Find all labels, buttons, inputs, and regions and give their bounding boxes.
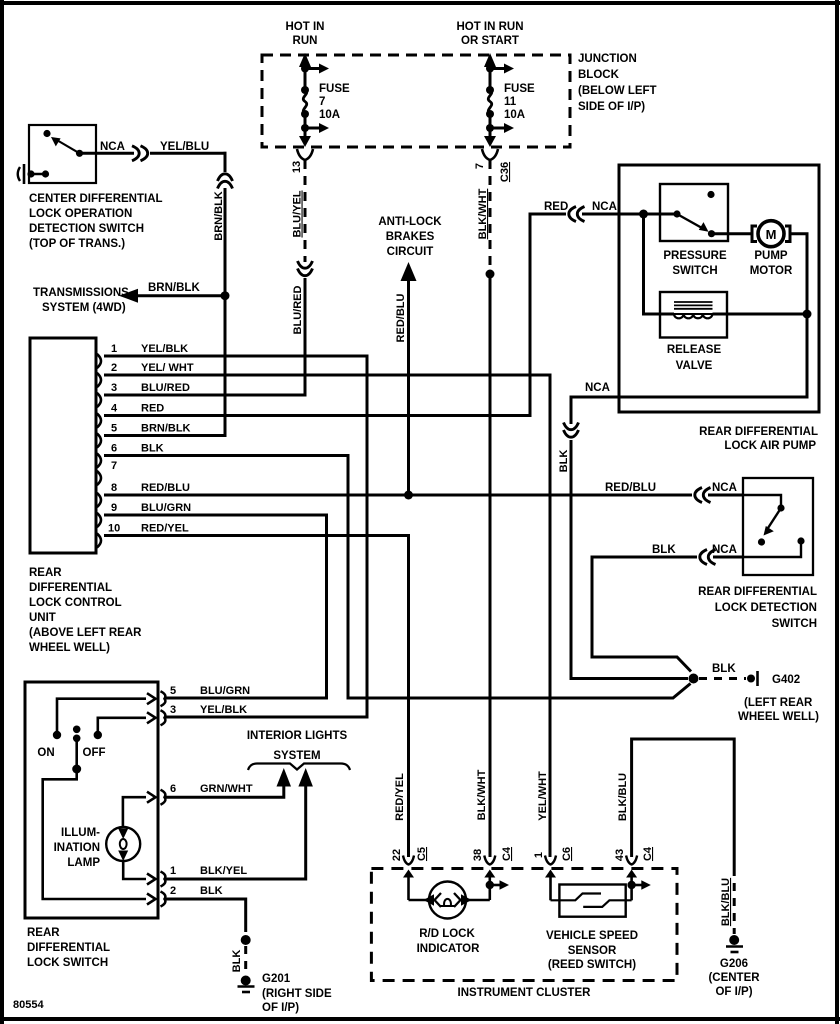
svg-text:RED/BLU: RED/BLU <box>605 482 656 494</box>
ground G201 symbol <box>241 976 251 986</box>
junction dot to transmissions system <box>221 291 230 300</box>
wire pressure switch to pump motor <box>712 232 752 235</box>
svg-text:SYSTEM (4WD): SYSTEM (4WD) <box>42 302 126 314</box>
pressure switch box <box>660 184 728 241</box>
svg-text:RED: RED <box>141 403 164 415</box>
svg-text:DIFFERENTIAL: DIFFERENTIAL <box>27 942 110 954</box>
svg-text:WHEEL WELL): WHEEL WELL) <box>29 642 110 654</box>
wire GRN/WHT to interior lights <box>166 786 284 797</box>
wire BLK dashed to G402 <box>699 677 746 680</box>
svg-text:OF I/P): OF I/P) <box>715 986 752 998</box>
svg-text:UNIT: UNIT <box>29 612 56 624</box>
svg-text:PRESSURE: PRESSURE <box>663 250 727 262</box>
wire NCA into air pump <box>582 213 677 216</box>
cluster pin 38 fork <box>484 856 495 865</box>
svg-text:(RIGHT SIDE: (RIGHT SIDE <box>262 988 332 1000</box>
wire release valve to return <box>660 313 727 315</box>
svg-text:10: 10 <box>108 523 120 535</box>
wire BLK pump return down <box>570 396 573 425</box>
svg-text:38: 38 <box>472 849 484 861</box>
svg-text:C5: C5 <box>416 847 428 861</box>
svg-text:LOCK SWITCH: LOCK SWITCH <box>27 957 108 969</box>
svg-text:ANTI-LOCK: ANTI-LOCK <box>378 216 442 228</box>
pin 6 connector <box>97 454 101 468</box>
rear differential lock control unit box <box>30 338 96 553</box>
svg-text:OFF: OFF <box>83 747 106 759</box>
svg-text:NCA: NCA <box>100 141 125 153</box>
svg-text:2: 2 <box>170 885 176 897</box>
svg-text:YEL/WHT: YEL/WHT <box>537 771 549 821</box>
wire to R/D lock indicator <box>409 899 430 902</box>
release valve caption <box>667 344 722 372</box>
svg-text:INTERIOR LIGHTS: INTERIOR LIGHTS <box>247 730 348 742</box>
wire BRN/BLK branch to transmissions system <box>136 294 225 297</box>
svg-text:VEHICLE SPEED: VEHICLE SPEED <box>546 930 638 942</box>
rear differential lock air pump outer box <box>619 165 819 412</box>
wire to release valve <box>644 214 675 314</box>
fuse 7 top tap dot and arrow <box>301 65 309 73</box>
svg-text:PUMP: PUMP <box>754 250 788 262</box>
rear differential lock detection switch box <box>743 478 813 575</box>
svg-text:7: 7 <box>319 96 325 108</box>
svg-text:RED/YEL: RED/YEL <box>394 773 406 821</box>
svg-text:5: 5 <box>111 423 117 435</box>
svg-text:(ABOVE LEFT REAR: (ABOVE LEFT REAR <box>29 627 142 639</box>
branch arrow from pin 43 junction <box>632 884 643 887</box>
wire NCA into detection switch <box>708 494 743 497</box>
svg-text:JUNCTION: JUNCTION <box>578 53 637 65</box>
pin 3 connector <box>97 393 101 407</box>
svg-text:ILLUM-: ILLUM- <box>61 827 100 839</box>
svg-text:(TOP OF TRANS.): (TOP OF TRANS.) <box>29 238 125 250</box>
wire reed to pin 43 <box>630 876 633 900</box>
inline connector on BLU/YEL wire <box>298 261 313 268</box>
svg-text:BLK/YEL: BLK/YEL <box>200 865 247 877</box>
pressure switch input contact <box>673 210 680 217</box>
detection switch blade with arrow <box>768 508 781 528</box>
lock switch caption <box>27 927 110 969</box>
svg-text:NCA: NCA <box>712 482 737 494</box>
svg-text:WHEEL WELL): WHEEL WELL) <box>738 711 819 723</box>
inline connector on BLK detection wire <box>700 550 707 565</box>
svg-text:10A: 10A <box>319 109 340 121</box>
svg-text:INDICATOR: INDICATOR <box>417 943 481 955</box>
svg-text:3: 3 <box>111 382 117 394</box>
ground G402 symbol <box>747 675 755 683</box>
pump motor left bracket <box>752 226 757 242</box>
svg-text:LAMP: LAMP <box>67 857 100 869</box>
svg-text:C6: C6 <box>561 847 573 861</box>
junction dot NCA feed inside pump <box>639 210 648 219</box>
inline connector on RED/BLU wire <box>695 488 702 503</box>
wire BRN/BLK vertical from corner <box>224 152 227 172</box>
cluster pin 22 arrow <box>403 870 414 878</box>
pump motor M circle <box>758 221 784 247</box>
cluster pin 38 arrow <box>484 870 495 878</box>
node HOT IN RUN OR START label <box>456 21 523 47</box>
switch fixed contact upper-left <box>43 130 50 137</box>
svg-text:9: 9 <box>111 502 117 514</box>
svg-text:REAR DIFFERENTIAL: REAR DIFFERENTIAL <box>698 586 817 598</box>
svg-text:OR START: OR START <box>461 35 519 47</box>
switch lower contacts <box>27 170 34 177</box>
svg-text:GRN/WHT: GRN/WHT <box>200 783 253 795</box>
svg-text:BLU/YEL: BLU/YEL <box>292 190 304 237</box>
wire BLK dashed to G201 <box>244 946 247 976</box>
svg-text:G201: G201 <box>262 973 291 985</box>
junction dot on BLK/WHT inside cluster <box>486 881 494 889</box>
R/D lock indicator lamp <box>429 882 466 919</box>
fuse 11 top tap dot and arrow <box>486 65 494 73</box>
splice dot on BLK/WHT <box>486 270 495 279</box>
rear differential lock switch box <box>25 682 158 918</box>
inline connector on BLK return <box>564 423 579 430</box>
svg-text:SYSTEM: SYSTEM <box>273 750 320 762</box>
connector fork pin 7 below fuse 11 <box>482 149 498 160</box>
svg-text:NCA: NCA <box>712 544 737 556</box>
lock switch pin 5 internal wire <box>57 699 146 735</box>
lock switch pin 3 internal wire <box>98 718 146 735</box>
svg-text:RED/YEL: RED/YEL <box>141 523 189 535</box>
svg-text:DETECTION SWITCH: DETECTION SWITCH <box>29 223 144 235</box>
svg-text:CENTER DIFFERENTIAL: CENTER DIFFERENTIAL <box>29 193 163 205</box>
wire BLK/WHT dashed from junction block <box>489 160 492 268</box>
svg-text:SENSOR: SENSOR <box>568 945 617 957</box>
detection switch lower contact <box>743 543 801 557</box>
wire BLK/WHT solid down to instrument cluster <box>489 274 492 857</box>
pin 7 connector <box>97 471 101 485</box>
fuse 11 bottom tap dot and arrow <box>489 114 492 139</box>
svg-text:6: 6 <box>170 783 176 795</box>
switch pole pivot <box>73 726 81 734</box>
wire BLK/BLU dashed tail <box>733 868 736 934</box>
ground G201 caption <box>262 973 332 1014</box>
wire BLK from detection switch to G402 junction <box>592 557 697 672</box>
wire BLK/BLU from pin 43 to G206 <box>632 739 735 868</box>
switch common contact <box>76 150 83 157</box>
pressure switch caption <box>663 250 727 277</box>
svg-text:BRN/BLK: BRN/BLK <box>213 191 225 241</box>
junction dot RED/BLU <box>404 491 413 500</box>
svg-text:4: 4 <box>111 403 118 415</box>
junction block dashed box <box>262 55 570 147</box>
wire from switch to inline connector <box>80 152 135 155</box>
center differential switch caption <box>29 193 163 250</box>
svg-text:LOCK OPERATION: LOCK OPERATION <box>29 208 132 220</box>
lock switch pin 1 fork <box>161 872 166 887</box>
wire RED/BLU to anti-lock brakes circuit with up arrow <box>401 262 417 281</box>
fuse 11 feed arrow up <box>489 68 492 90</box>
svg-text:(CENTER: (CENTER <box>708 972 760 984</box>
svg-text:VALVE: VALVE <box>676 360 713 372</box>
svg-text:BLU/RED: BLU/RED <box>141 382 190 394</box>
fuse 7 bottom tap dot and arrow <box>304 114 307 139</box>
wire NCA into detection switch lower <box>713 556 743 559</box>
interior lights brace <box>248 764 350 771</box>
svg-text:RED/BLU: RED/BLU <box>141 482 190 494</box>
svg-text:BLK/WHT: BLK/WHT <box>477 188 489 239</box>
svg-text:(BELOW LEFT: (BELOW LEFT <box>578 85 657 97</box>
wire indicator to pin 38 <box>466 899 490 902</box>
junction block label <box>578 53 657 113</box>
svg-text:BLK/BLU: BLK/BLU <box>617 773 629 821</box>
svg-text:1: 1 <box>111 343 117 355</box>
junction dot release valve return <box>803 310 812 319</box>
svg-text:SIDE OF I/P): SIDE OF I/P) <box>578 101 645 113</box>
svg-text:ON: ON <box>37 747 54 759</box>
svg-text:SWITCH: SWITCH <box>672 265 717 277</box>
vehicle speed sensor box <box>559 885 625 917</box>
illumination lamp circle <box>106 827 140 861</box>
svg-text:10A: 10A <box>504 109 525 121</box>
svg-text:G402: G402 <box>772 674 800 686</box>
svg-text:BRAKES: BRAKES <box>386 231 435 243</box>
node HOT IN RUN label <box>286 21 325 47</box>
connector fork pin 13 below fuse 7 <box>297 149 313 160</box>
svg-text:RELEASE: RELEASE <box>667 344 722 356</box>
svg-text:HOT IN RUN: HOT IN RUN <box>456 21 523 33</box>
splice dot G201 wire <box>241 935 251 945</box>
svg-text:INSTRUMENT CLUSTER: INSTRUMENT CLUSTER <box>458 987 592 999</box>
detection switch caption <box>698 586 817 630</box>
svg-text:REAR: REAR <box>27 927 60 939</box>
svg-text:OF I/P): OF I/P) <box>262 1002 299 1014</box>
pressure switch output contact <box>708 230 715 237</box>
svg-text:RED/BLU: RED/BLU <box>395 294 407 343</box>
junction dot pin 43 <box>627 881 635 889</box>
svg-text:HOT IN: HOT IN <box>286 21 325 33</box>
svg-text:MOTOR: MOTOR <box>750 265 793 277</box>
pressure switch blade with arrow <box>677 214 702 228</box>
svg-text:7: 7 <box>111 460 117 472</box>
svg-text:BLK: BLK <box>558 450 570 473</box>
svg-text:M: M <box>766 227 777 242</box>
lock switch pin 6 fork <box>161 790 166 805</box>
control unit caption <box>29 567 142 654</box>
switch blade with arrow <box>59 141 80 153</box>
vehicle speed sensor caption <box>546 930 638 971</box>
release valve winding <box>674 314 712 318</box>
wire BRN/BLK continues down to pin 5 row <box>224 188 227 437</box>
lamp top arrow <box>118 829 128 840</box>
svg-text:BLK/BLU: BLK/BLU <box>720 878 732 926</box>
svg-text:REAR: REAR <box>29 567 62 579</box>
lock switch pin 5 fork <box>161 691 166 706</box>
wire BLK/YEL to interior lights <box>166 786 306 879</box>
ON contact dot <box>53 731 61 739</box>
svg-text:LOCK CONTROL: LOCK CONTROL <box>29 597 122 609</box>
detection switch moving contact <box>758 538 765 545</box>
lamp wire to pin 1 <box>123 861 146 879</box>
svg-text:80554: 80554 <box>13 999 44 1011</box>
lock switch pin 3 fork <box>161 710 166 725</box>
pin 10 connector <box>97 534 101 548</box>
svg-text:BLOCK: BLOCK <box>578 69 620 81</box>
pin 5 connector <box>97 434 101 448</box>
air pump caption <box>699 426 818 452</box>
release valve box <box>660 292 727 338</box>
cluster pin 1 arrow <box>545 870 556 878</box>
svg-text:RED: RED <box>544 201 568 213</box>
svg-text:CIRCUIT: CIRCUIT <box>387 246 434 258</box>
svg-text:(REED SWITCH): (REED SWITCH) <box>548 959 636 971</box>
svg-text:1: 1 <box>533 852 545 858</box>
lamp filament <box>120 839 127 849</box>
case ground symbol at switch <box>23 164 26 184</box>
svg-text:13: 13 <box>291 161 303 173</box>
illumination lamp caption <box>54 827 101 869</box>
svg-text:7: 7 <box>474 163 486 169</box>
instrument cluster dashed box <box>371 869 677 981</box>
lock switch pin 2 fork <box>161 892 166 907</box>
release valve core lines <box>674 301 713 303</box>
svg-text:BLK: BLK <box>141 443 164 455</box>
pump motor caption <box>750 250 793 277</box>
svg-text:BLU/GRN: BLU/GRN <box>141 502 191 514</box>
svg-text:BRN/BLK: BRN/BLK <box>141 423 191 435</box>
svg-text:BLK: BLK <box>652 544 676 556</box>
reed switch contacts <box>551 894 602 901</box>
interior lights system caption <box>247 730 348 762</box>
arrow to transmissions system <box>119 289 138 303</box>
pump motor right bracket <box>785 226 790 242</box>
pin 1 connector <box>97 354 101 368</box>
svg-text:5: 5 <box>170 685 176 697</box>
svg-text:BLK/WHT: BLK/WHT <box>476 769 488 820</box>
center differential lock operation detection switch box <box>29 125 96 183</box>
svg-text:YEL/BLU: YEL/BLU <box>160 141 209 153</box>
svg-text:YEL/BLK: YEL/BLK <box>200 704 247 716</box>
svg-text:1: 1 <box>170 865 176 877</box>
fuse 11 output arrow down <box>484 136 496 147</box>
wire BLU/YEL dashed from junction block <box>304 160 307 262</box>
fuse 7 output arrow down <box>299 136 311 147</box>
svg-text:BLK: BLK <box>231 950 243 973</box>
pin 9 connector <box>97 513 101 527</box>
svg-text:C36: C36 <box>499 162 511 182</box>
svg-text:NCA: NCA <box>592 201 617 213</box>
svg-text:BRN/BLK: BRN/BLK <box>148 282 200 294</box>
wire pump motor return <box>571 234 807 397</box>
lock switch pin 6 internal wire <box>123 797 146 827</box>
svg-text:11: 11 <box>504 96 517 108</box>
inline connector on YEL/BLU wire <box>132 146 139 161</box>
svg-text:6: 6 <box>111 443 117 455</box>
branch arrow from BLK/WHT junction <box>490 884 501 887</box>
svg-text:TRANSMISSIONS: TRANSMISSIONS <box>33 287 129 299</box>
detection switch upper contact <box>743 495 781 506</box>
svg-text:BLU/RED: BLU/RED <box>292 286 304 335</box>
junction dot G402 <box>689 674 699 684</box>
anti-lock brakes circuit caption <box>378 216 442 258</box>
svg-text:R/D LOCK: R/D LOCK <box>419 928 475 940</box>
OFF contact dot <box>94 731 102 739</box>
fuse 11 element <box>486 86 494 94</box>
cluster pin 1 fork <box>545 856 556 865</box>
svg-text:NCA: NCA <box>585 382 610 394</box>
wire YEL/BLU to corner <box>150 152 227 155</box>
svg-text:(LEFT REAR: (LEFT REAR <box>744 697 813 709</box>
svg-text:FUSE: FUSE <box>319 83 350 95</box>
ground G206 caption <box>708 958 760 998</box>
pin 2 connector <box>97 373 101 387</box>
inline connector on BRN/BLK wire <box>218 174 233 181</box>
wire BLU/RED vertical drop to pin 3 <box>304 278 307 395</box>
fuse 7 value label <box>319 83 350 121</box>
svg-text:YEL/BLK: YEL/BLK <box>141 343 188 355</box>
svg-text:BLK: BLK <box>712 663 736 675</box>
pressure switch fixed contact <box>707 191 714 198</box>
svg-text:LOCK DETECTION: LOCK DETECTION <box>715 602 817 614</box>
svg-text:43: 43 <box>614 849 626 861</box>
lamp bottom arrow <box>118 851 128 862</box>
cluster pin 43 fork <box>626 856 637 865</box>
transmissions system caption <box>33 287 129 314</box>
svg-text:BLK: BLK <box>200 885 223 897</box>
svg-text:INATION: INATION <box>54 842 100 854</box>
cluster pin 22 fork <box>403 856 414 865</box>
ground G206 symbol <box>729 935 739 945</box>
fuse 11 value label <box>504 83 535 121</box>
svg-text:22: 22 <box>391 849 403 861</box>
svg-text:2: 2 <box>111 362 117 374</box>
svg-text:REAR DIFFERENTIAL: REAR DIFFERENTIAL <box>699 426 818 438</box>
fuse 7 feed arrow up <box>304 68 307 90</box>
svg-text:G206: G206 <box>720 958 748 970</box>
pole wire to pin 2 <box>43 769 146 899</box>
svg-text:FUSE: FUSE <box>504 83 535 95</box>
indicator filament <box>444 899 451 906</box>
svg-text:C4: C4 <box>501 846 513 861</box>
cluster pin 43 arrow <box>626 870 637 878</box>
wire BLK continues to G402 junction <box>571 440 688 679</box>
inline connector on RED wire <box>569 207 576 222</box>
svg-text:RUN: RUN <box>293 35 318 47</box>
svg-text:8: 8 <box>111 482 117 494</box>
R/D lock indicator caption <box>417 928 481 955</box>
svg-text:3: 3 <box>170 704 176 716</box>
pole lower dot <box>72 765 81 774</box>
pin 8 connector <box>97 493 101 507</box>
svg-text:BLU/GRN: BLU/GRN <box>200 685 250 697</box>
svg-text:LOCK AIR PUMP: LOCK AIR PUMP <box>724 440 816 452</box>
wire BLK to G201 <box>166 899 246 932</box>
pin 4 connector <box>97 414 101 428</box>
svg-text:SWITCH: SWITCH <box>772 618 817 630</box>
svg-text:DIFFERENTIAL: DIFFERENTIAL <box>29 582 112 594</box>
fuse 7 element <box>301 86 309 94</box>
svg-text:YEL/ WHT: YEL/ WHT <box>141 362 194 374</box>
svg-text:C4: C4 <box>642 846 654 861</box>
